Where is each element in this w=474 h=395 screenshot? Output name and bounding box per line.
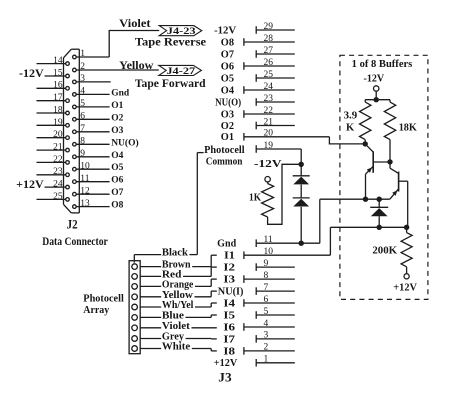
svg-text:O3: O3 bbox=[111, 126, 123, 136]
node: Q2 base / 200K junction bbox=[404, 225, 409, 230]
svg-text:20: 20 bbox=[53, 130, 63, 140]
svg-text:Wh/Yel: Wh/Yel bbox=[162, 300, 194, 311]
node: Q1 base / 18K / Q2 collector bbox=[387, 159, 392, 164]
resistor 1K bbox=[249, 182, 274, 217]
J2 pin 11 bbox=[73, 174, 110, 184]
svg-text:16: 16 bbox=[53, 81, 63, 91]
J2 pin 23 bbox=[37, 167, 70, 177]
resistor 18K bbox=[384, 100, 417, 162]
J2 pin 4 bbox=[73, 87, 110, 97]
svg-text:12: 12 bbox=[80, 186, 90, 196]
svg-text:1: 1 bbox=[264, 355, 269, 365]
J2 pin 1 bbox=[73, 49, 110, 59]
J2 pin 9 bbox=[73, 149, 110, 159]
wire I1 (pin 10) up to input line bbox=[329, 227, 331, 255]
svg-text:2: 2 bbox=[264, 343, 269, 353]
J3 pin 24 bbox=[244, 82, 295, 94]
J3 pin 20 (O1 to buffer) bbox=[244, 129, 365, 144]
wire input line (I1 net) bbox=[330, 226, 406, 228]
svg-text:11: 11 bbox=[80, 174, 89, 184]
J3 pin 29 bbox=[256, 22, 295, 34]
power -12V terminal (1K pull) bbox=[254, 159, 283, 182]
svg-text:10: 10 bbox=[80, 161, 90, 171]
J2 pin 22 bbox=[37, 155, 70, 165]
wire Orange (array to J3) bbox=[140, 279, 217, 290]
J3 pin 11 bbox=[256, 235, 320, 247]
wire CR2 to Gnd line bbox=[300, 207, 302, 243]
node: pin19 / 1K / diode junction bbox=[299, 162, 304, 167]
svg-text:8: 8 bbox=[80, 137, 85, 147]
svg-text:-12V: -12V bbox=[254, 159, 283, 170]
svg-text:9: 9 bbox=[264, 259, 269, 269]
diode CR2 bbox=[293, 197, 310, 199]
svg-text:5: 5 bbox=[80, 99, 85, 109]
svg-text:Tape Reverse: Tape Reverse bbox=[135, 35, 207, 49]
svg-text:O1: O1 bbox=[111, 101, 123, 111]
svg-text:Violet: Violet bbox=[162, 321, 191, 332]
svg-text:O8: O8 bbox=[111, 201, 123, 211]
svg-text:White: White bbox=[162, 342, 191, 353]
svg-text:15: 15 bbox=[53, 68, 63, 78]
J3 pin 9 bbox=[256, 259, 295, 271]
svg-text:I3: I3 bbox=[223, 275, 235, 286]
transistor Q1 bbox=[365, 144, 390, 199]
svg-text:-12V: -12V bbox=[214, 25, 237, 36]
svg-text:NU(O): NU(O) bbox=[215, 97, 241, 108]
J2 pin 21 bbox=[37, 143, 70, 153]
transistor Q2 bbox=[390, 162, 408, 227]
svg-text:K: K bbox=[346, 123, 355, 134]
svg-text:3.9: 3.9 bbox=[344, 110, 358, 121]
svg-text:Data Connector: Data Connector bbox=[42, 236, 108, 248]
svg-text:O2: O2 bbox=[221, 121, 234, 132]
svg-text:Array: Array bbox=[83, 305, 110, 316]
J2 pin 16 bbox=[37, 81, 70, 91]
photocell array connector bbox=[129, 261, 140, 354]
svg-text:Blue: Blue bbox=[162, 311, 185, 322]
diode CR1 bbox=[293, 175, 310, 177]
svg-text:O6: O6 bbox=[111, 176, 123, 186]
J3 pin 22 bbox=[244, 106, 295, 118]
label Photocell Array bbox=[83, 293, 124, 316]
svg-text:O8: O8 bbox=[221, 37, 234, 48]
wire J2 pin 1 to J4-23 bbox=[109, 31, 159, 58]
node: Q1 emitter junction bbox=[363, 197, 368, 202]
svg-text:25: 25 bbox=[53, 192, 63, 202]
wire Wh/Yel (array to J3) bbox=[140, 300, 217, 311]
J2 pin 2 bbox=[73, 62, 159, 72]
power +12V terminal (200K pull) bbox=[393, 274, 417, 294]
J3 pin 28 bbox=[244, 34, 295, 46]
svg-text:18K: 18K bbox=[399, 123, 418, 134]
svg-text:Gnd: Gnd bbox=[217, 239, 236, 250]
svg-text:Photocell: Photocell bbox=[204, 145, 245, 156]
svg-text:4: 4 bbox=[80, 87, 85, 97]
wire Black (array to Photocell Common) bbox=[134, 153, 203, 263]
svg-text:3: 3 bbox=[264, 331, 269, 341]
J2 pin 14 bbox=[37, 56, 70, 66]
svg-text:Violet: Violet bbox=[119, 16, 150, 30]
svg-text:5: 5 bbox=[264, 307, 269, 317]
svg-text:I4: I4 bbox=[223, 298, 235, 309]
J2 pin 7 bbox=[73, 124, 110, 134]
J3 pin 4 bbox=[244, 319, 295, 331]
J2 pin 24 bbox=[45, 180, 70, 190]
wire Grey (array to J3) bbox=[140, 332, 217, 343]
J3 pin 25 bbox=[256, 70, 295, 82]
J2 pin 17 bbox=[37, 93, 70, 103]
J2 pin 8 bbox=[73, 137, 110, 147]
buffer enclosure (1 of 8 Buffers) bbox=[340, 55, 428, 299]
svg-text:O4: O4 bbox=[111, 151, 123, 161]
J2 pin 5 bbox=[73, 99, 110, 109]
off-page connector J4-27 bbox=[159, 65, 202, 76]
svg-text:22: 22 bbox=[53, 155, 63, 165]
svg-text:7: 7 bbox=[264, 283, 269, 293]
svg-text:Yellow: Yellow bbox=[119, 58, 154, 72]
J3 pin 23 bbox=[256, 94, 295, 106]
J3 pin 5 bbox=[256, 307, 295, 319]
J2 pin 3 bbox=[73, 74, 111, 84]
svg-text:27: 27 bbox=[264, 46, 274, 56]
J3 pin 7 bbox=[256, 283, 295, 295]
J2 pin 12 bbox=[73, 186, 110, 196]
svg-text:+12V: +12V bbox=[393, 283, 417, 294]
wire Blue (array to J3) bbox=[140, 311, 217, 322]
wire emitter/ground line bbox=[320, 198, 390, 200]
svg-text:24: 24 bbox=[264, 82, 274, 92]
J3 pin 2 bbox=[244, 343, 295, 355]
J3 pin 8 bbox=[244, 271, 295, 283]
J3 pin 6 bbox=[244, 295, 295, 307]
J3 pin 3 bbox=[256, 331, 295, 343]
wire clamp node to diode CR1 bbox=[300, 164, 302, 176]
resistor 3.9K bbox=[344, 100, 371, 144]
resistor 200K bbox=[372, 227, 412, 273]
diode CR3 bbox=[370, 199, 388, 227]
svg-text:6: 6 bbox=[264, 295, 269, 305]
svg-text:14: 14 bbox=[53, 56, 63, 66]
J2 pin 19 bbox=[37, 118, 70, 128]
J2 pin 18 bbox=[37, 105, 70, 115]
svg-text:I7: I7 bbox=[223, 334, 235, 345]
svg-text:I5: I5 bbox=[223, 310, 235, 321]
svg-text:O2: O2 bbox=[111, 113, 123, 123]
J2 pin 15 bbox=[45, 68, 70, 78]
svg-text:28: 28 bbox=[264, 34, 274, 44]
svg-text:11: 11 bbox=[264, 235, 273, 245]
svg-text:J3: J3 bbox=[218, 371, 231, 385]
wire junction to 1K branch bbox=[268, 164, 302, 224]
svg-text:O7: O7 bbox=[221, 49, 234, 60]
wire CR1 to CR2 bbox=[300, 185, 302, 198]
svg-text:I8: I8 bbox=[223, 346, 235, 357]
svg-text:3: 3 bbox=[80, 74, 85, 84]
svg-text:18: 18 bbox=[53, 105, 63, 115]
wire Gnd (pin 11) up to emitter line bbox=[319, 199, 321, 243]
J3 pin 1 bbox=[256, 355, 295, 367]
svg-text:+12V: +12V bbox=[214, 358, 238, 369]
svg-text:26: 26 bbox=[264, 58, 274, 68]
svg-text:21: 21 bbox=[264, 117, 274, 127]
svg-text:8: 8 bbox=[264, 271, 269, 281]
svg-text:Photocell: Photocell bbox=[83, 293, 124, 304]
svg-text:NU(O): NU(O) bbox=[111, 137, 138, 148]
svg-text:1 of 8 Buffers: 1 of 8 Buffers bbox=[352, 59, 413, 70]
svg-text:13: 13 bbox=[80, 199, 90, 209]
wire O1 step into buffer bbox=[329, 137, 365, 144]
J3 pin 26 bbox=[244, 58, 295, 70]
net label Photocell Common (J3 pin 19) bbox=[204, 145, 245, 168]
svg-text:20: 20 bbox=[264, 129, 274, 139]
svg-text:23: 23 bbox=[53, 167, 63, 177]
svg-text:Common: Common bbox=[206, 156, 243, 167]
svg-text:O5: O5 bbox=[111, 163, 123, 173]
wire J3 pin19 down to clamp node bbox=[300, 149, 302, 164]
svg-text:6: 6 bbox=[80, 112, 85, 122]
node: clamp to Gnd (pin 11) bbox=[299, 241, 304, 246]
wire Yellow (array to J3) bbox=[140, 290, 217, 301]
svg-text:19: 19 bbox=[53, 118, 63, 128]
connector J2 outline bbox=[64, 49, 80, 213]
svg-text:O6: O6 bbox=[221, 61, 234, 72]
J2 pin 13 bbox=[73, 199, 110, 209]
svg-text:22: 22 bbox=[264, 106, 274, 116]
svg-text:29: 29 bbox=[264, 22, 274, 32]
node: O1 / 3.9K / Q1 collector bbox=[363, 141, 368, 146]
svg-text:NU(I): NU(I) bbox=[218, 287, 244, 298]
svg-text:J2: J2 bbox=[67, 217, 78, 231]
svg-text:17: 17 bbox=[53, 93, 63, 103]
svg-text:I1: I1 bbox=[224, 251, 235, 262]
node: CR3 anode junction bbox=[377, 225, 382, 230]
svg-text:O1: O1 bbox=[221, 132, 234, 143]
svg-text:O4: O4 bbox=[221, 85, 234, 96]
svg-text:200K: 200K bbox=[372, 246, 398, 257]
svg-text:1K: 1K bbox=[249, 193, 261, 204]
svg-text:10: 10 bbox=[264, 247, 274, 257]
svg-text:24: 24 bbox=[53, 180, 63, 190]
wire Red (array to J3) bbox=[140, 267, 217, 280]
svg-text:4: 4 bbox=[264, 319, 269, 329]
J3 pin 21 bbox=[256, 117, 295, 129]
J3 pin 19 bbox=[256, 141, 301, 153]
svg-text:19: 19 bbox=[264, 141, 274, 151]
wire White (array to J3) bbox=[140, 342, 217, 353]
J3 pin 10 bbox=[244, 247, 331, 259]
svg-text:-12V: -12V bbox=[19, 66, 44, 80]
wire -12V rail bbox=[365, 99, 390, 101]
power -12V terminal (buffer) bbox=[364, 74, 385, 100]
svg-text:1: 1 bbox=[80, 49, 85, 59]
svg-text:-12V: -12V bbox=[364, 74, 385, 85]
svg-text:I6: I6 bbox=[223, 322, 235, 333]
J2 pin 10 bbox=[73, 161, 110, 171]
wire Brown (array to J3) bbox=[140, 255, 217, 271]
svg-text:21: 21 bbox=[53, 143, 63, 153]
J2 pin 6 bbox=[73, 112, 110, 122]
svg-text:9: 9 bbox=[80, 149, 85, 159]
svg-text:25: 25 bbox=[264, 70, 274, 80]
J2 pin 25 bbox=[37, 192, 70, 202]
svg-text:Tape Forward: Tape Forward bbox=[135, 76, 206, 90]
svg-text:Black: Black bbox=[162, 248, 188, 259]
svg-text:Orange: Orange bbox=[162, 280, 194, 291]
svg-text:23: 23 bbox=[264, 94, 274, 104]
svg-text:O3: O3 bbox=[221, 109, 234, 120]
svg-text:2: 2 bbox=[80, 62, 85, 72]
svg-text:O7: O7 bbox=[111, 188, 123, 198]
svg-text:Gnd: Gnd bbox=[111, 88, 130, 98]
J2 pin 20 bbox=[37, 130, 70, 140]
svg-text:7: 7 bbox=[80, 124, 85, 134]
svg-text:I2: I2 bbox=[223, 263, 235, 274]
svg-text:+12V: +12V bbox=[16, 177, 44, 191]
wire Violet (array to J3) bbox=[140, 321, 217, 332]
J3 pin 27 bbox=[256, 46, 295, 58]
node: rail junction bbox=[374, 97, 379, 102]
svg-text:O5: O5 bbox=[221, 73, 234, 84]
node: diode CR3 top junction bbox=[377, 197, 382, 202]
off-page connector J4-23 bbox=[159, 26, 202, 37]
